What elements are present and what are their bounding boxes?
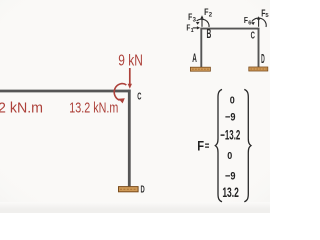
svg-text:F: F <box>197 138 204 153</box>
svg-text:C: C <box>137 91 141 102</box>
svg-text:13.2: 13.2 <box>222 185 239 200</box>
svg-text:=: = <box>205 140 210 152</box>
svg-text:9 kN: 9 kN <box>118 53 143 70</box>
svg-text:13.2 kN.m: 13.2 kN.m <box>69 99 118 116</box>
svg-text:C: C <box>251 30 256 42</box>
svg-text:D: D <box>141 185 145 196</box>
svg-text:0: 0 <box>230 96 235 107</box>
svg-text:0: 0 <box>227 151 232 162</box>
svg-text:2 kN.m: 2 kN.m <box>0 99 43 116</box>
svg-text:−9: −9 <box>225 170 236 182</box>
svg-text:−13.2: −13.2 <box>220 128 240 143</box>
svg-text:A: A <box>192 51 197 65</box>
svg-text:1: 1 <box>191 28 194 34</box>
svg-text:B: B <box>207 26 212 41</box>
svg-text:D: D <box>261 51 265 66</box>
svg-text:−9: −9 <box>225 112 236 124</box>
